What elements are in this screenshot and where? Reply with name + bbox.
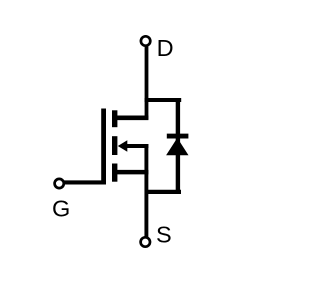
svg-text:S: S [156,222,172,248]
wire: drain junction to diode cathode branch [145,98,182,102]
wire: source node vertical to S terminal [144,144,148,237]
wire: source lead (MOSFET source bar to source node) [115,170,149,175]
wire: diode branch vertical [176,98,180,194]
terminal S [141,237,150,246]
wire: D terminal to drain junction [145,47,149,120]
MOSFET Q1 drain channel bar [112,110,117,127]
svg-text:G: G [52,195,70,221]
wire: body lead (arrow to source node) [124,144,148,148]
MOSFET Q1 body channel bar [112,136,117,155]
wire: diode anode to source branch [145,190,181,194]
diode D1 cathode bar [167,134,189,139]
MOSFET Q1 source channel bar [112,164,117,182]
svg-text:D: D [157,35,174,61]
terminal G [55,179,64,188]
wire: drain lead (junction to MOSFET drain bar) [115,116,149,121]
MOSFET Q1 body arrow [118,140,128,152]
diode D1 anode triangle [166,138,188,155]
wire: gate lead (G terminal to gate bar) [63,180,106,184]
terminal D [141,36,150,45]
MOSFET Q1 gate bar [101,109,106,185]
